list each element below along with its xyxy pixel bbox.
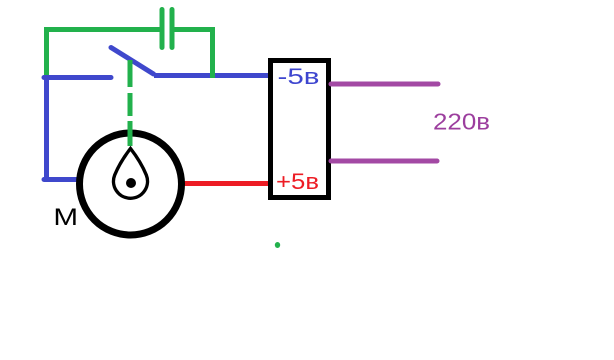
wire [44,75,111,80]
wire [172,27,215,32]
motor rotor (teardrop) [114,149,148,199]
red wire [185,181,269,186]
svg-text:-5в: -5в [278,64,320,89]
capacitor C1 [162,10,172,48]
switch S1 [111,48,154,75]
wire [44,30,49,76]
svg-text:M: M [53,204,78,231]
motor shaft dot [126,178,136,188]
purple wire [331,82,438,87]
wire [154,73,269,78]
wire [44,76,49,180]
power supply U1 [271,61,329,198]
motor M1 [80,133,182,235]
node (stray green dot) [275,242,280,248]
svg-text:+5в: +5в [276,169,319,194]
wire [44,27,162,32]
wire [210,30,215,79]
purple wire [331,159,437,164]
wire [44,177,79,182]
switch linkage (dashed) [128,60,133,146]
svg-text:220в: 220в [433,109,490,135]
